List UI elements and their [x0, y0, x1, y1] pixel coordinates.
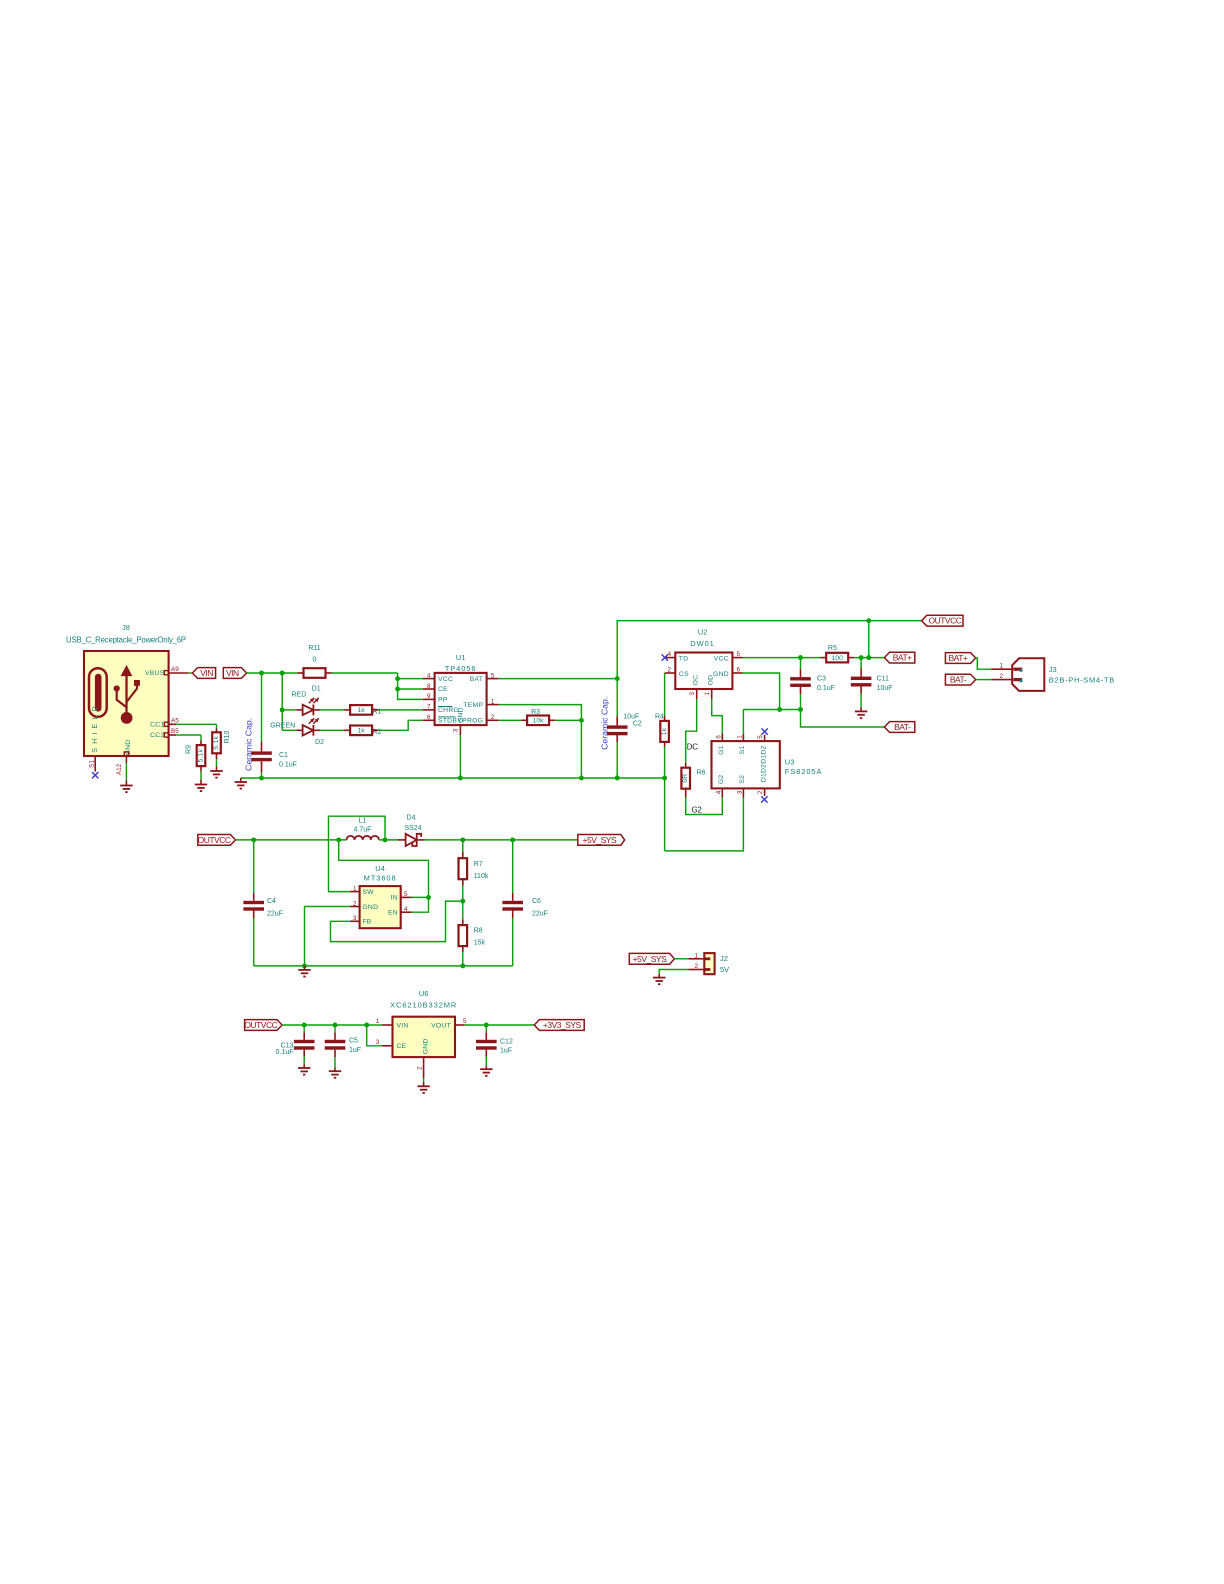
- svg-text:CE: CE: [397, 1043, 407, 1050]
- svg-text:1uF: 1uF: [349, 1047, 361, 1054]
- svg-text:A12: A12: [116, 763, 123, 775]
- svg-text:J8: J8: [122, 623, 130, 632]
- svg-text:CC2: CC2: [150, 732, 164, 739]
- svg-text:CS: CS: [679, 671, 689, 678]
- svg-text:OUTVCC: OUTVCC: [198, 835, 231, 845]
- svg-text:GND: GND: [457, 707, 464, 723]
- svg-text:15k: 15k: [474, 940, 486, 947]
- svg-text:1: 1: [704, 692, 711, 696]
- svg-text:5: 5: [737, 651, 741, 658]
- svg-text:2: 2: [353, 900, 357, 907]
- svg-text:110k: 110k: [474, 873, 489, 880]
- svg-text:R6: R6: [697, 770, 706, 777]
- svg-text:TEMP: TEMP: [463, 702, 483, 709]
- svg-text:TD: TD: [679, 655, 689, 662]
- svg-text:XC6210B332MR: XC6210B332MR: [390, 1001, 457, 1010]
- svg-text:B5: B5: [171, 728, 179, 735]
- svg-text:1k: 1k: [661, 727, 668, 735]
- svg-text:4: 4: [404, 906, 408, 913]
- svg-text:A9: A9: [171, 666, 179, 673]
- svg-text:A5: A5: [171, 717, 179, 724]
- svg-text:10k: 10k: [533, 718, 545, 725]
- svg-text:IN: IN: [391, 895, 398, 902]
- svg-text:MT3608: MT3608: [364, 874, 397, 883]
- svg-text:BAT+: BAT+: [893, 653, 912, 663]
- svg-text:BAT-: BAT-: [894, 722, 911, 732]
- svg-text:C12: C12: [500, 1038, 513, 1045]
- svg-text:SS24: SS24: [404, 825, 421, 832]
- svg-text:3: 3: [689, 692, 696, 696]
- svg-text:S2: S2: [739, 775, 746, 784]
- svg-text:C2: C2: [633, 720, 642, 727]
- svg-text:R7: R7: [474, 861, 483, 868]
- svg-text:R8: R8: [474, 928, 483, 935]
- svg-text:D4: D4: [407, 815, 416, 822]
- svg-text:0: 0: [313, 657, 317, 664]
- svg-text:D1D2D1D2: D1D2D1D2: [760, 745, 767, 782]
- svg-text:G1: G1: [718, 745, 725, 755]
- svg-text:5.1k: 5.1k: [213, 736, 220, 750]
- svg-text:PROG: PROG: [462, 718, 483, 725]
- svg-text:6: 6: [715, 735, 722, 739]
- svg-text:3: 3: [453, 728, 460, 732]
- svg-text:7: 7: [427, 704, 431, 711]
- svg-text:VOUT: VOUT: [431, 1022, 451, 1029]
- svg-text:100: 100: [832, 655, 844, 662]
- svg-text:22uF: 22uF: [532, 911, 548, 918]
- svg-text:1k: 1k: [358, 707, 366, 714]
- svg-text:S1: S1: [739, 746, 746, 755]
- svg-text:3: 3: [353, 915, 357, 922]
- svg-text:5.1k: 5.1k: [198, 748, 205, 762]
- svg-text:1uF: 1uF: [500, 1047, 512, 1054]
- svg-text:USB_C_Receptacle_PowerOnly_6P: USB_C_Receptacle_PowerOnly_6P: [66, 636, 186, 645]
- svg-text:VCC: VCC: [438, 676, 453, 683]
- svg-text:R10: R10: [224, 730, 231, 743]
- svg-text:VBUS: VBUS: [145, 670, 165, 677]
- svg-text:SHIELD: SHIELD: [92, 702, 99, 753]
- svg-text:CC1: CC1: [150, 722, 164, 729]
- svg-text:2: 2: [1000, 673, 1004, 680]
- svg-text:OUTVCC: OUTVCC: [928, 616, 961, 626]
- svg-text:1: 1: [1000, 662, 1004, 669]
- svg-text:0.1uF: 0.1uF: [817, 685, 835, 692]
- svg-text:G2: G2: [718, 775, 725, 785]
- svg-text:U2: U2: [698, 628, 708, 637]
- svg-text:1: 1: [736, 735, 743, 739]
- svg-text:C1: C1: [279, 752, 288, 759]
- svg-text:SW: SW: [362, 889, 374, 896]
- svg-text:VIN: VIN: [226, 668, 239, 678]
- svg-text:BAT: BAT: [470, 676, 483, 683]
- svg-text:1: 1: [376, 1018, 380, 1025]
- svg-text:U1: U1: [456, 653, 466, 662]
- svg-text:VIN: VIN: [397, 1022, 409, 1029]
- svg-text:R4: R4: [655, 714, 664, 721]
- svg-text:GND: GND: [422, 1038, 429, 1054]
- svg-text:U4: U4: [375, 864, 385, 873]
- svg-text:U3: U3: [785, 758, 795, 767]
- svg-text:4: 4: [427, 672, 431, 679]
- svg-text:S1: S1: [88, 760, 95, 768]
- svg-text:EN: EN: [388, 910, 398, 917]
- svg-text:J3: J3: [1049, 665, 1057, 674]
- svg-text:5V: 5V: [720, 965, 729, 974]
- svg-text:PP: PP: [438, 697, 448, 704]
- svg-text:U6: U6: [419, 989, 429, 998]
- svg-text:2: 2: [416, 1066, 423, 1070]
- svg-text:DC: DC: [687, 742, 698, 751]
- svg-text:Ceramic Cap.: Ceramic Cap.: [244, 718, 254, 771]
- svg-text:0.1uF: 0.1uF: [276, 1049, 294, 1056]
- svg-text:4: 4: [715, 790, 722, 794]
- svg-text:D2: D2: [315, 739, 324, 746]
- svg-text:2: 2: [491, 714, 495, 721]
- svg-text:0R: 0R: [682, 774, 689, 783]
- svg-text:9: 9: [427, 693, 431, 700]
- svg-text:+5V_SYS: +5V_SYS: [633, 954, 667, 964]
- svg-text:L1: L1: [359, 818, 367, 825]
- svg-text:5: 5: [757, 735, 764, 739]
- svg-text:R9: R9: [186, 745, 193, 754]
- svg-text:5: 5: [404, 891, 408, 898]
- svg-text:R3: R3: [531, 709, 540, 716]
- svg-text:+3V3_SYS: +3V3_SYS: [543, 1020, 582, 1030]
- svg-text:8: 8: [427, 683, 431, 690]
- svg-text:3: 3: [376, 1039, 380, 1046]
- svg-text:VCC: VCC: [714, 655, 729, 662]
- svg-text:BAT-: BAT-: [950, 675, 967, 685]
- svg-text:2: 2: [757, 790, 764, 794]
- svg-text:CHRG: CHRG: [438, 707, 459, 714]
- svg-text:B2B-PH-SM4-TB: B2B-PH-SM4-TB: [1049, 676, 1115, 685]
- svg-text:GND: GND: [362, 904, 378, 911]
- svg-text:2: 2: [694, 963, 698, 970]
- svg-text:GREEN: GREEN: [270, 723, 295, 730]
- svg-text:C6: C6: [532, 898, 541, 905]
- svg-text:C4: C4: [267, 898, 276, 905]
- svg-text:1: 1: [353, 885, 357, 892]
- svg-text:22uF: 22uF: [267, 911, 283, 918]
- svg-text:R11: R11: [308, 645, 320, 652]
- svg-text:BAT+: BAT+: [949, 653, 968, 663]
- svg-text:R5: R5: [828, 645, 837, 652]
- svg-text:FB: FB: [362, 919, 371, 926]
- svg-text:RED: RED: [292, 692, 307, 699]
- svg-text:DW01: DW01: [690, 639, 714, 648]
- svg-text:VIN: VIN: [200, 668, 213, 678]
- svg-text:TP4056: TP4056: [445, 664, 477, 673]
- svg-text:1: 1: [694, 952, 698, 959]
- svg-text:C11: C11: [877, 676, 889, 683]
- svg-text:J2: J2: [720, 954, 728, 963]
- svg-text:1k: 1k: [358, 728, 366, 735]
- svg-text:4.7uF: 4.7uF: [354, 827, 372, 834]
- svg-text:G2: G2: [692, 806, 703, 815]
- svg-text:OC: OC: [693, 675, 700, 686]
- svg-text:6: 6: [737, 667, 741, 674]
- svg-text:3: 3: [736, 790, 743, 794]
- svg-text:10uF: 10uF: [877, 685, 893, 692]
- svg-text:FS8205A: FS8205A: [785, 767, 823, 776]
- svg-text:C3: C3: [817, 676, 826, 683]
- svg-text:0.1uF: 0.1uF: [279, 762, 297, 769]
- svg-text:D1: D1: [312, 686, 321, 693]
- svg-text:+5V_SYS: +5V_SYS: [583, 835, 617, 845]
- svg-text:6: 6: [427, 714, 431, 721]
- svg-text:5: 5: [463, 1018, 467, 1025]
- svg-text:2: 2: [668, 667, 672, 674]
- svg-text:OD: OD: [708, 675, 715, 686]
- svg-text:CE: CE: [438, 686, 448, 693]
- svg-text:GND: GND: [713, 671, 729, 678]
- svg-text:1: 1: [491, 698, 495, 705]
- svg-text:OUTVCC: OUTVCC: [244, 1020, 277, 1030]
- svg-text:Ceramic Cap.: Ceramic Cap.: [600, 697, 610, 750]
- svg-text:4: 4: [668, 651, 672, 658]
- svg-text:5: 5: [491, 672, 495, 679]
- svg-text:C5: C5: [349, 1038, 358, 1045]
